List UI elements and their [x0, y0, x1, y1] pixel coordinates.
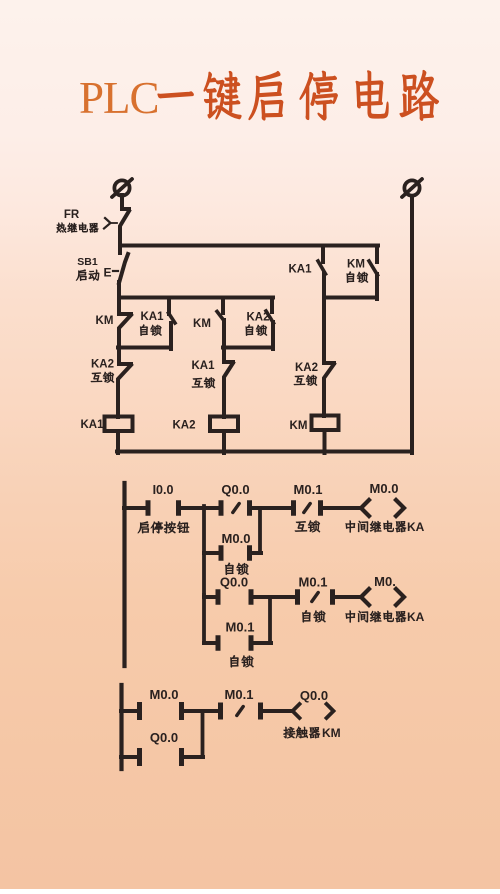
svg-text:M0.0: M0.0 — [370, 481, 399, 496]
svg-text:KM: KM — [290, 420, 308, 432]
svg-text:KA1: KA1 — [191, 360, 215, 372]
svg-text:M0.1: M0.1 — [225, 687, 254, 702]
svg-text:KA2: KA2 — [295, 362, 318, 374]
svg-text:KA1: KA1 — [80, 419, 104, 431]
svg-text:M0.0: M0.0 — [150, 687, 179, 702]
svg-text:KM: KM — [193, 318, 211, 330]
svg-text:FR: FR — [64, 209, 80, 221]
svg-text:I0.0: I0.0 — [153, 483, 174, 497]
svg-text:Q0.0: Q0.0 — [221, 482, 249, 497]
svg-text:M0.: M0. — [374, 574, 396, 589]
svg-text:M0.1: M0.1 — [299, 575, 328, 590]
svg-text:KA1: KA1 — [288, 264, 312, 276]
svg-text:M0.0: M0.0 — [222, 531, 251, 546]
svg-text:Q0.0: Q0.0 — [150, 730, 178, 745]
svg-text:KA2: KA2 — [246, 312, 269, 324]
svg-text:Q0.0: Q0.0 — [300, 688, 328, 703]
svg-text:KA: KA — [407, 610, 425, 624]
svg-text:KA2: KA2 — [172, 420, 195, 432]
svg-text:KA: KA — [407, 520, 425, 534]
svg-text:M0.1: M0.1 — [226, 620, 255, 635]
svg-text:E: E — [103, 266, 111, 280]
svg-text:M0.1: M0.1 — [294, 482, 323, 497]
svg-text:SB1: SB1 — [77, 256, 98, 268]
svg-text:KA1: KA1 — [140, 311, 164, 323]
svg-text:Q0.0: Q0.0 — [220, 575, 248, 590]
svg-text:KA2: KA2 — [91, 359, 114, 371]
svg-text:KM: KM — [347, 259, 365, 271]
svg-text:KM: KM — [322, 726, 341, 740]
svg-text:PLC: PLC — [79, 73, 159, 123]
svg-text:KM: KM — [96, 315, 114, 327]
